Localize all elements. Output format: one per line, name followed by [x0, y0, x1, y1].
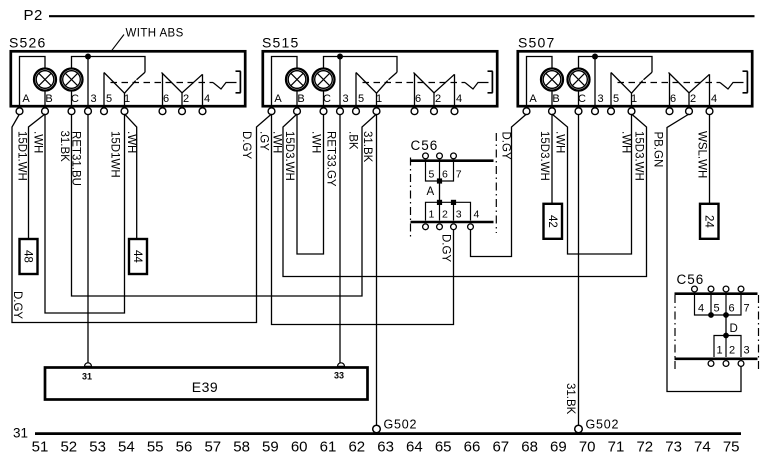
wire WH S526-1 to 44	[125, 114, 137, 239]
C56 right cell box 4-7	[695, 295, 742, 315]
svg-text:54: 54	[118, 438, 135, 455]
wire node D link	[725, 315, 727, 336]
svg-text:.WH: .WH	[271, 131, 283, 153]
svg-text:31.BK: 31.BK	[58, 131, 70, 163]
junction square pin3	[451, 200, 456, 205]
C56 right pin 5 terminal	[708, 286, 714, 292]
svg-text:RET33.GY: RET33.GY	[325, 131, 337, 187]
svg-text:.WH: .WH	[620, 131, 632, 153]
svg-text:74: 74	[694, 438, 711, 455]
wire D.GY S526-A to S515-A	[12, 114, 272, 323]
svg-text:3: 3	[744, 345, 750, 357]
wire BK S526-C to S515-1	[72, 114, 377, 296]
svg-text:2: 2	[729, 345, 735, 357]
svg-text:48: 48	[22, 250, 34, 263]
svg-text:D.GY: D.GY	[440, 234, 452, 262]
svg-text:51: 51	[32, 438, 49, 455]
svg-text:D.GY: D.GY	[500, 132, 512, 160]
svg-text:G502: G502	[384, 418, 418, 432]
wire WH/15D1WH S526 B-1 loop	[45, 114, 125, 313]
svg-text:7: 7	[744, 303, 750, 315]
svg-text:C56: C56	[677, 272, 705, 287]
svg-text:D.GY: D.GY	[240, 131, 252, 159]
svg-text:P2: P2	[24, 7, 43, 24]
svg-text:65: 65	[435, 438, 452, 455]
C56 pin 7 terminal	[451, 153, 457, 159]
destination box 44	[129, 239, 147, 274]
svg-text:31.BK: 31.BK	[361, 131, 373, 163]
svg-text:6: 6	[729, 303, 735, 315]
C56 bottom bar	[411, 221, 494, 224]
C56 pin 2 lower terminal	[437, 224, 443, 230]
destination box 42	[544, 204, 563, 239]
switch unit S507	[518, 51, 752, 114]
wire RET31.BU S526-3 to E39-31	[87, 114, 89, 363]
svg-text:6: 6	[442, 169, 448, 181]
wire D.GY S507-A to C56 pin 4	[471, 114, 527, 257]
svg-text:72: 72	[636, 438, 653, 455]
junction dot pin6	[723, 312, 729, 318]
svg-text:57: 57	[204, 438, 221, 455]
C56 pin 6 terminal	[437, 153, 443, 159]
C56 right pin 7 terminal	[738, 286, 744, 292]
wire node A link	[439, 181, 441, 202]
C56 pin 1 lower terminal	[423, 224, 429, 230]
svg-text:.WH: .WH	[125, 131, 137, 153]
C56 right pin 6 terminal	[723, 286, 729, 292]
svg-text:73: 73	[665, 438, 682, 455]
svg-text:61: 61	[320, 438, 337, 455]
svg-text:58: 58	[233, 438, 250, 455]
svg-text:66: 66	[464, 438, 481, 455]
svg-text:RET31.BU: RET31.BU	[70, 131, 82, 186]
svg-text:33: 33	[334, 371, 344, 381]
junction square pin2	[437, 200, 442, 205]
wire GY S515-A to C56 pin 3	[272, 114, 454, 325]
svg-text:44: 44	[131, 250, 143, 263]
svg-text:C56: C56	[411, 138, 439, 153]
C56 cell box 1-4	[426, 202, 471, 220]
svg-text:D.GY: D.GY	[11, 291, 23, 319]
svg-text:24: 24	[702, 215, 714, 228]
svg-text:5: 5	[429, 169, 435, 181]
svg-text:.WH: .WH	[310, 131, 322, 153]
svg-text:2: 2	[442, 209, 448, 221]
C56 pin 4 lower terminal	[468, 224, 474, 230]
wire WSL.WH S507-4 to 24	[709, 114, 711, 204]
svg-text:64: 64	[406, 438, 423, 455]
svg-text:1: 1	[717, 345, 723, 357]
junction dot node D	[723, 333, 729, 339]
svg-text:15D3.WH: 15D3.WH	[633, 131, 645, 181]
svg-text:D: D	[730, 323, 738, 335]
ground terminal G502 left	[373, 425, 381, 433]
C56 right bottom bar	[675, 357, 758, 360]
connector boundary dash-dot right	[758, 295, 760, 372]
svg-text:S507: S507	[518, 35, 556, 51]
svg-text:59: 59	[262, 438, 279, 455]
svg-text:56: 56	[176, 438, 193, 455]
C56 pin 5 terminal	[423, 153, 429, 159]
wire WH S507 B-1 loop	[552, 114, 632, 254]
unit E39	[45, 368, 368, 400]
destination box 48	[20, 239, 38, 274]
ground terminal G502 right	[575, 425, 583, 433]
svg-text:A: A	[427, 186, 435, 198]
svg-text:60: 60	[291, 438, 308, 455]
svg-text:70: 70	[579, 438, 596, 455]
svg-text:67: 67	[492, 438, 509, 455]
svg-text:WSL.WH: WSL.WH	[696, 131, 708, 178]
svg-text:S526: S526	[9, 35, 47, 51]
svg-text:PB.GN: PB.GN	[652, 132, 664, 168]
connector boundary dash-dot right	[495, 133, 497, 233]
C56 right pin 4 terminal	[692, 286, 698, 292]
svg-text:3: 3	[456, 209, 462, 221]
svg-text:.GY: .GY	[258, 131, 270, 151]
wire 15D1.WH S526-B to 48	[29, 114, 46, 239]
leader line WITH ABS	[112, 35, 125, 51]
wire PB.GN S507-2 to C56 pin 3	[667, 114, 741, 392]
wire WH S515-B to S507-1	[283, 114, 647, 277]
svg-text:WITH ABS: WITH ABS	[126, 28, 184, 40]
svg-text:15D1.WH: 15D1.WH	[16, 131, 28, 181]
svg-text:15D3.WH: 15D3.WH	[538, 131, 550, 181]
connector boundary dash-dot left	[410, 158, 412, 238]
svg-text:4: 4	[698, 303, 704, 315]
svg-text:7: 7	[456, 169, 462, 181]
svg-text:55: 55	[147, 438, 164, 455]
svg-text:52: 52	[60, 438, 77, 455]
ground rail 31	[35, 432, 741, 435]
C56 cell box 5-6	[426, 162, 454, 181]
svg-text:15D1WH: 15D1WH	[109, 131, 121, 178]
C56 top bar	[411, 159, 494, 162]
C56 right pin 2 lower terminal	[723, 361, 729, 367]
svg-text:31: 31	[13, 426, 28, 441]
svg-text:75: 75	[723, 438, 740, 455]
C56 right pin 3 lower terminal	[738, 361, 744, 367]
terminal bump 33	[338, 363, 345, 367]
wire 31BK S507-C to G502	[578, 114, 580, 425]
wire 15D3.WH S507-B to 42	[551, 114, 553, 204]
C56 right cell box 1-3	[714, 336, 741, 358]
wire 15D3.WH S515 B-C loop	[297, 114, 324, 254]
svg-text:S515: S515	[262, 35, 300, 51]
svg-text:.WH: .WH	[554, 131, 566, 153]
svg-text:G502: G502	[586, 418, 620, 432]
svg-text:1: 1	[429, 209, 435, 221]
svg-text:69: 69	[550, 438, 567, 455]
svg-text:62: 62	[348, 438, 365, 455]
svg-text:4: 4	[474, 209, 480, 221]
switch unit S526	[11, 51, 245, 114]
destination box 24	[700, 204, 719, 239]
svg-text:5: 5	[714, 303, 720, 315]
junction dot pin5	[708, 312, 714, 318]
svg-text:E39: E39	[192, 379, 218, 395]
svg-text:42: 42	[546, 215, 558, 228]
wire P2 bus line	[49, 15, 755, 17]
C56 right pin 1 lower terminal	[708, 361, 714, 367]
svg-text:31: 31	[82, 372, 92, 382]
connector boundary dash-dot left	[674, 295, 676, 372]
svg-text:63: 63	[377, 438, 394, 455]
C56 pin 3 lower terminal	[451, 224, 457, 230]
svg-text:68: 68	[521, 438, 538, 455]
junction square A	[437, 178, 442, 183]
svg-text:.WH: .WH	[32, 131, 44, 153]
wire RET33.GY S515-3 to E39-33	[339, 114, 341, 363]
wire 31.BK S515-1 to G502	[376, 114, 378, 425]
terminal bump 31	[85, 363, 92, 367]
svg-text:71: 71	[608, 438, 625, 455]
svg-text:31.BK: 31.BK	[564, 383, 576, 415]
svg-text:15D3.WH: 15D3.WH	[283, 131, 295, 181]
svg-text:.BK: .BK	[347, 131, 359, 150]
svg-text:53: 53	[89, 438, 106, 455]
switch unit S515	[263, 51, 497, 114]
C56 right top bar	[675, 292, 758, 295]
